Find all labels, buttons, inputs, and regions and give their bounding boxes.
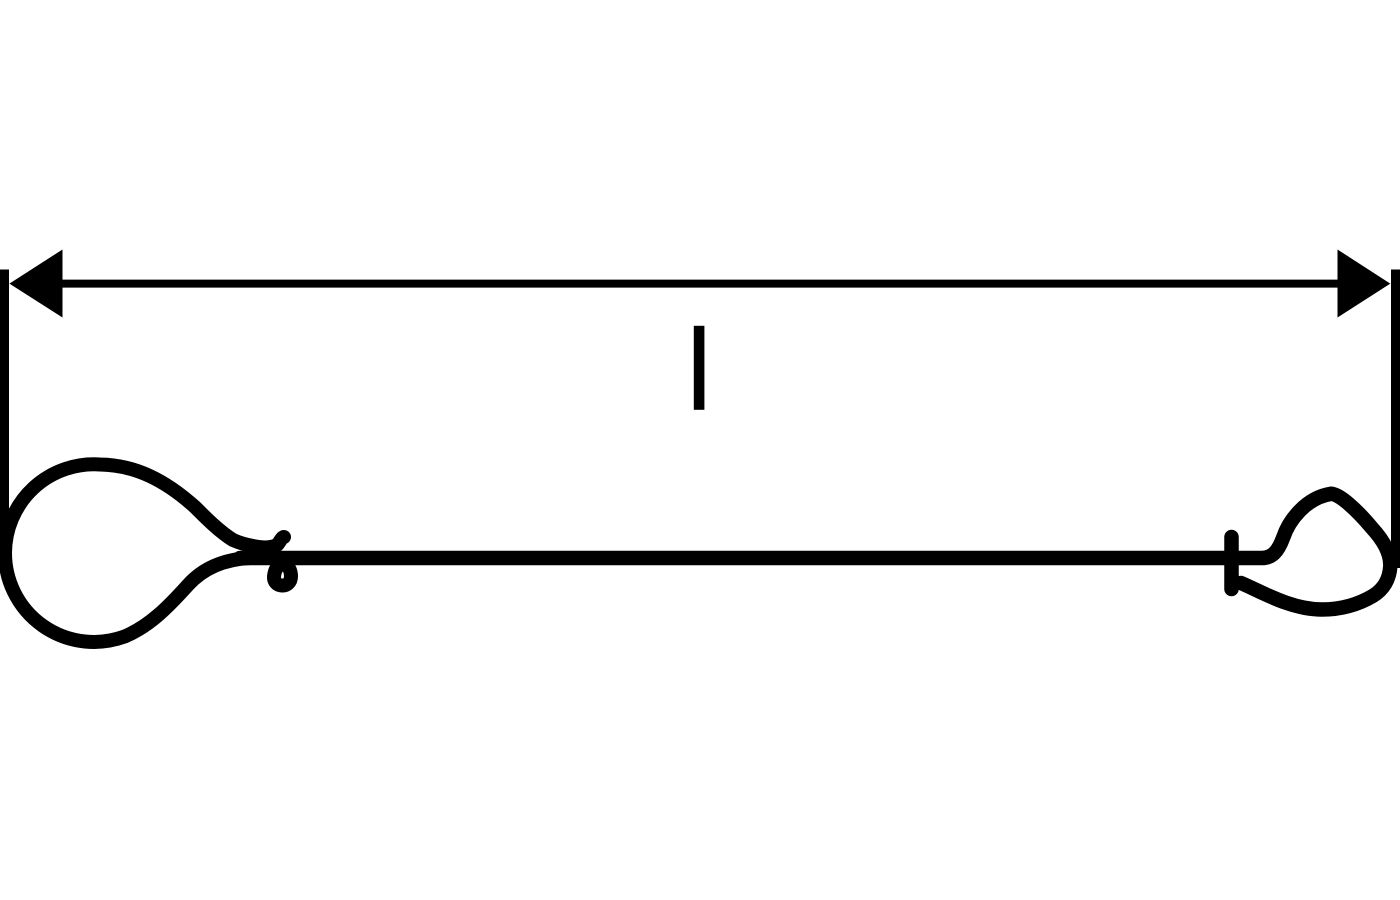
left loop (teardrop: upper strand, ring, lower strand into wire)	[5, 464, 264, 642]
label l	[694, 326, 705, 410]
wire (straight middle section plus bend into right loop)	[240, 494, 1390, 610]
right twist stub	[1224, 537, 1239, 589]
left twist drop ring (wire curl below wire)	[274, 564, 291, 586]
left extension line	[0, 270, 9, 548]
left arrowhead	[9, 250, 62, 318]
dimension line	[58, 280, 1342, 288]
right extension line	[1391, 270, 1400, 569]
right arrowhead	[1338, 250, 1391, 318]
left twist knob (wire end curled over, above wire)	[264, 537, 284, 548]
